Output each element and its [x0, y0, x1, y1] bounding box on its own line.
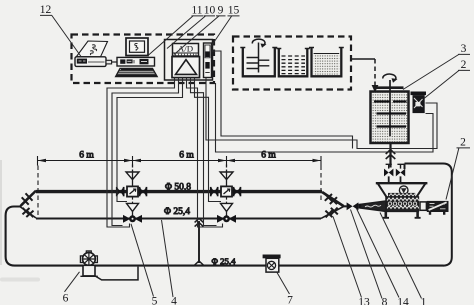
station 2 thin pipe valve	[217, 215, 225, 223]
pump bypass loop	[95, 267, 138, 280]
tank T2 liquid dashes	[282, 56, 306, 74]
hopper top rim	[376, 182, 428, 184]
station 1 upper seal pot	[126, 172, 139, 180]
mixing tank rotation arrow	[383, 74, 396, 80]
monitor 11	[126, 38, 148, 56]
signal wire station2 b	[191, 78, 217, 226]
svg-text:6: 6	[63, 293, 69, 305]
station 2 axis dashes	[226, 165, 228, 172]
feed valve left	[384, 169, 389, 177]
test pipe 5 (thin, D25.4)	[36, 218, 321, 220]
monitor screen	[130, 41, 145, 52]
signal wire station2 c	[195, 78, 222, 202]
extension dashes right	[320, 166, 322, 204]
station 1 thin pipe valve	[123, 215, 131, 223]
mixing tank body	[371, 92, 409, 144]
mixing tank agitator shaft	[389, 80, 391, 136]
left wye thick branch	[21, 191, 37, 206]
transfer line from tank box	[351, 58, 375, 60]
signal wire station1 c	[117, 78, 183, 202]
instrumentation dashed enclosure	[72, 35, 215, 84]
mixing tank top bar	[377, 86, 404, 89]
tank T3 walls	[312, 48, 342, 77]
feed valve right	[396, 169, 401, 177]
tank outlet pipe	[389, 143, 391, 168]
motor feet	[430, 212, 444, 215]
hopper material band	[388, 193, 415, 197]
instrument 7 body	[266, 258, 279, 272]
wire to mixer motor lower	[206, 78, 437, 149]
merge wye thin branch	[321, 207, 344, 219]
left wye lower valve crosses	[23, 208, 34, 217]
circulation pump 6 flange ears	[80, 256, 84, 263]
printer 12 panel line	[88, 61, 105, 63]
signal wire station1 b	[112, 78, 179, 226]
station 2 downstream valves	[233, 187, 235, 196]
keyboard	[116, 68, 158, 76]
svg-text:4: 4	[171, 296, 177, 305]
svg-text:8: 8	[382, 297, 388, 305]
station 2 upstream valves	[210, 187, 212, 196]
discharge valve 8	[347, 202, 353, 210]
station 2 lower stub	[226, 197, 228, 203]
svg-text:12: 12	[40, 4, 52, 16]
drain top chevrons	[195, 218, 204, 226]
dimension chain line	[38, 160, 322, 162]
dashed feed drop line	[374, 59, 376, 84]
printer 12 front slot	[77, 59, 87, 64]
svg-text:Φ 50,8: Φ 50,8	[165, 182, 191, 192]
terminal strip 15	[204, 43, 212, 78]
signal wire station1 a	[107, 78, 175, 228]
feed arrow into mixing tank	[374, 84, 376, 87]
station 2 DP sensor box	[221, 186, 232, 196]
svg-text:14: 14	[397, 297, 409, 305]
wye valve 14 crosses	[325, 208, 337, 218]
circulation pump 6 body	[83, 265, 95, 276]
amplifier 9	[172, 57, 200, 78]
svg-text:6 m: 6 m	[179, 151, 194, 161]
svg-text:2: 2	[460, 137, 466, 149]
drain connection pipe	[198, 221, 200, 263]
station 1 DP sensor box	[127, 186, 138, 196]
printer 12 body	[75, 57, 106, 67]
svg-text:6 m: 6 m	[261, 151, 276, 161]
svg-text:Φ 25,4: Φ 25,4	[164, 207, 190, 217]
printer cable plug	[106, 60, 112, 64]
circulation pump 6 impeller circle	[83, 253, 96, 266]
flexible joint chevrons	[386, 150, 396, 159]
printer cable wire	[112, 61, 118, 63]
valve stems into hopper	[389, 176, 401, 183]
tank T3 granular fill	[314, 54, 340, 75]
tank T1 rotation arrow	[252, 39, 265, 45]
station 1 lower stub	[132, 197, 134, 203]
station 2 upper seal pot	[220, 172, 233, 180]
instrument 7 cap	[263, 255, 281, 259]
wye valve 13 crosses	[325, 194, 337, 204]
svg-text:7: 7	[287, 295, 293, 305]
system unit slots	[120, 59, 125, 63]
station 1 upstream valves	[116, 187, 118, 196]
system unit	[117, 57, 155, 66]
svg-text:15: 15	[228, 5, 240, 17]
viscometer drive 3 cap	[411, 92, 427, 96]
A/D converter 10	[173, 44, 199, 57]
coupling	[420, 202, 426, 210]
barrel legs	[386, 211, 418, 217]
svg-text:10: 10	[204, 5, 216, 17]
circulation pump 6 top knob	[86, 251, 91, 254]
tank T1 stirrer shaft	[258, 43, 260, 73]
svg-text:Φ 25,4: Φ 25,4	[212, 256, 237, 266]
svg-text:3: 3	[461, 43, 467, 55]
viscometer drive motor 2 body	[413, 95, 425, 113]
tank T1 paddles	[247, 58, 259, 69]
extension dashes left	[37, 166, 39, 217]
station 1 downstream valves	[139, 187, 141, 196]
left wye thin branch	[21, 207, 37, 218]
left wye upper valve crosses	[21, 193, 32, 204]
station 1 lower seal pot	[127, 203, 139, 211]
dimension arrowheads	[38, 159, 47, 163]
svg-text:5: 5	[152, 296, 158, 305]
test pipe 4 (thick, D50.8)	[36, 190, 322, 193]
station 2 lower seal pot	[221, 203, 233, 211]
drive motor 2	[427, 201, 449, 212]
dimension ticks	[38, 156, 322, 166]
hopper sloped walls	[378, 183, 426, 197]
tank wall top caps	[240, 48, 343, 49]
wire from terminal strip top	[212, 51, 353, 149]
amplifier triangle	[176, 60, 197, 75]
wire to viscometer	[216, 83, 434, 152]
drain bottom chevron	[195, 261, 204, 265]
svg-text:6 m: 6 m	[79, 151, 94, 161]
scan smudge left edge	[0, 160, 2, 265]
discharge nozzle	[361, 201, 386, 211]
station 1 axis dashes	[132, 165, 134, 172]
svg-text:11: 11	[191, 5, 202, 17]
printer 12 paper sheet	[77, 41, 108, 57]
instrument 7 rotor	[267, 261, 275, 269]
monitor screen squiggle	[135, 43, 138, 50]
signal wire station2 a	[187, 78, 223, 228]
recycle elbow pipe	[405, 164, 452, 266]
svg-text:13: 13	[358, 297, 370, 305]
tank T2 walls	[279, 49, 308, 77]
mixing tank paddle bars	[374, 102, 406, 127]
svg-text:9: 9	[218, 5, 224, 17]
printer 12 paper squiggle	[90, 45, 97, 55]
instrument rack outline	[165, 40, 213, 81]
hopper agitator circle	[399, 186, 408, 195]
circulation pump 6 base	[80, 275, 97, 277]
scan smudge bottom left	[0, 278, 40, 282]
svg-text:2: 2	[461, 59, 467, 71]
return riser and bottom return line D25.4	[6, 207, 444, 266]
merge wye thick branch	[322, 192, 344, 206]
tank T1 (agitated) walls	[243, 48, 275, 77]
preparation tanks dashed enclosure	[233, 37, 351, 90]
screw barrel 1	[386, 197, 418, 212]
